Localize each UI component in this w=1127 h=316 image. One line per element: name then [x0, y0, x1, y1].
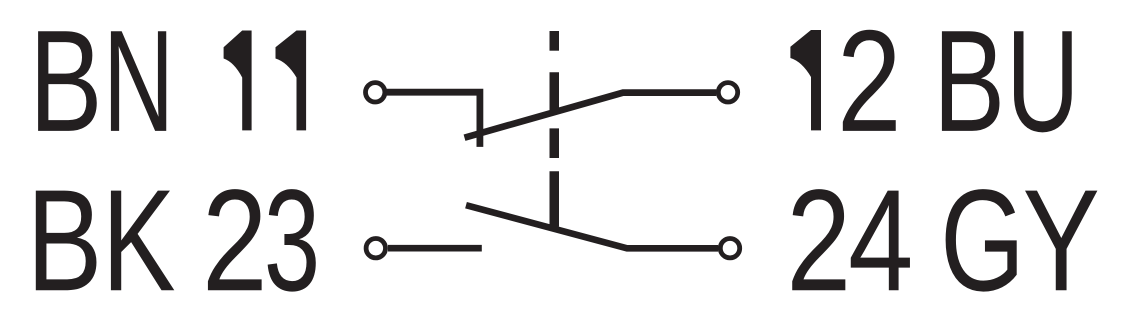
svg-text:U: U	[1006, 0, 1079, 162]
mechanical coupling dashed line: dash 2 (touches NC arm)	[550, 72, 560, 112]
terminal circle 11 (top left)	[366, 83, 385, 102]
wire from terminal 23 (bottom left)	[388, 245, 482, 252]
svg-text:B: B	[29, 1, 103, 162]
mechanical coupling dashed line: dash 3	[550, 128, 560, 158]
svg-text:B: B	[933, 1, 1005, 163]
movable contact arm of NC contact 11-12 and wire to terminal 12	[465, 93, 717, 138]
terminal circle 24 (bottom right)	[720, 239, 739, 258]
svg-text:B: B	[26, 159, 102, 316]
svg-text:4: 4	[848, 159, 913, 316]
svg-text:3: 3	[264, 161, 320, 316]
label BN 11 (terminal 11, brown wire)	[29, 1, 306, 162]
wire from terminal 11 with fixed contact post	[385, 92, 480, 147]
svg-text:2: 2	[837, 0, 902, 162]
label 24 GY (terminal 24, grey wire)	[786, 159, 1100, 316]
mechanical coupling dashed line: dash 1	[550, 31, 560, 51]
svg-text:Y: Y	[1022, 159, 1099, 316]
mechanical coupling dashed line: dash 4 (touches NO arm)	[550, 171, 560, 226]
terminal circle 23 (bottom left)	[366, 239, 385, 258]
label BK 23 (terminal 23, black wire)	[26, 159, 320, 316]
svg-text:2: 2	[786, 159, 851, 316]
svg-text:N: N	[103, 1, 175, 162]
movable contact arm of NO contact 23-24 and wire to terminal 24	[466, 205, 718, 248]
svg-text:G: G	[940, 160, 1025, 316]
svg-text:K: K	[102, 160, 176, 316]
label 12 BU (terminal 12, blue wire)	[790, 0, 1079, 163]
svg-text:2: 2	[202, 159, 268, 316]
terminal circle 12 (top right)	[718, 83, 737, 102]
